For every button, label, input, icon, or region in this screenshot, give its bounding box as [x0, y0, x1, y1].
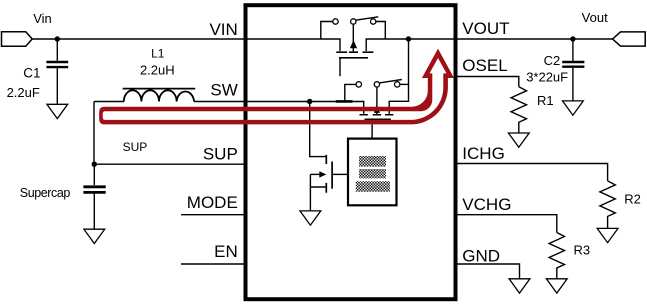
svg-text:3*22uF: 3*22uF — [526, 70, 568, 85]
svg-text:Supercap: Supercap — [20, 186, 71, 200]
svg-text:R1: R1 — [537, 93, 554, 108]
svg-text:ICHG: ICHG — [462, 144, 505, 163]
svg-text:EN: EN — [214, 242, 238, 261]
svg-text:2.2uH: 2.2uH — [140, 62, 175, 77]
svg-text:2.2uF: 2.2uF — [7, 85, 40, 100]
svg-text:VCHG: VCHG — [462, 195, 511, 214]
svg-text:MODE: MODE — [187, 193, 238, 212]
svg-text:SUP: SUP — [123, 140, 148, 154]
svg-text:SW: SW — [210, 81, 237, 100]
svg-text:C2: C2 — [544, 53, 561, 68]
svg-text:VIN: VIN — [209, 20, 237, 39]
svg-text:Vout: Vout — [582, 10, 608, 25]
svg-text:C1: C1 — [23, 66, 40, 81]
svg-text:L1: L1 — [151, 46, 165, 60]
svg-text:Vin: Vin — [33, 11, 52, 26]
svg-text:R2: R2 — [624, 191, 641, 206]
svg-text:GND: GND — [462, 246, 500, 265]
svg-text:VOUT: VOUT — [462, 19, 509, 38]
svg-text:SUP: SUP — [203, 144, 238, 163]
svg-text:OSEL: OSEL — [462, 56, 507, 75]
svg-text:R3: R3 — [574, 243, 591, 258]
